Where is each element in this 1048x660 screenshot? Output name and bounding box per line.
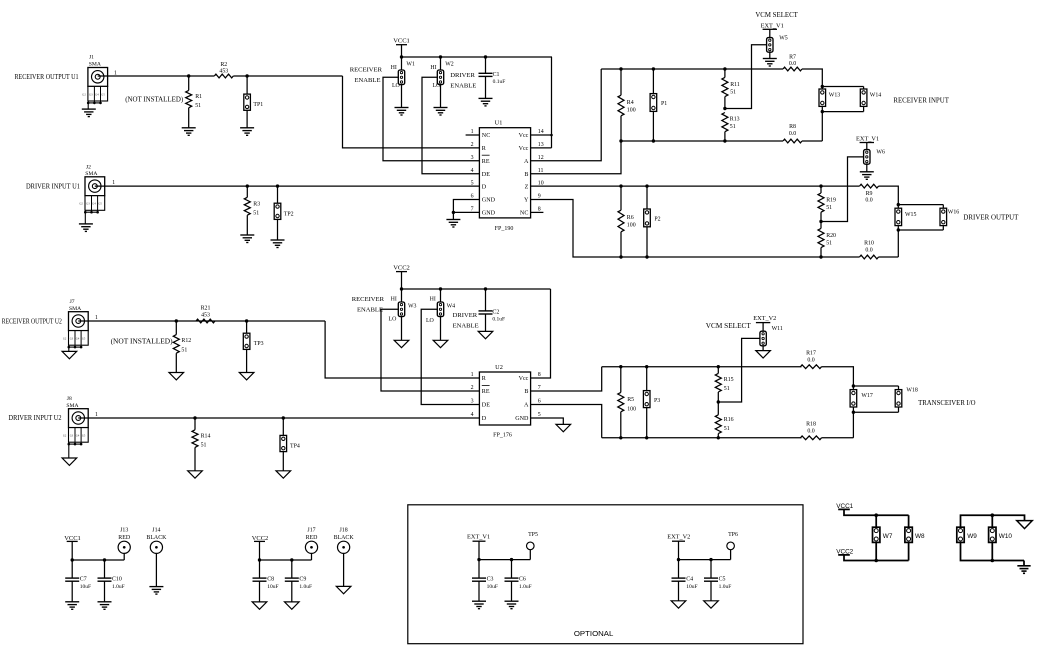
wire U1.A to receiver rail bbox=[531, 69, 602, 161]
svg-text:W4: W4 bbox=[447, 303, 456, 309]
wire W15 top to W16 top bbox=[898, 204, 943, 206]
ground under C3 bbox=[472, 601, 486, 609]
svg-text:C9: C9 bbox=[299, 577, 306, 583]
svg-text:1: 1 bbox=[471, 372, 474, 378]
svg-text:W18: W18 bbox=[906, 387, 918, 393]
svg-text:R1: R1 bbox=[195, 94, 202, 100]
wire J7 to U2.R route bbox=[78, 320, 325, 322]
svg-text:G4: G4 bbox=[95, 93, 99, 96]
ground under C6 bbox=[505, 601, 519, 609]
svg-text:EXT_V1: EXT_V1 bbox=[467, 534, 490, 541]
svg-text:G4: G4 bbox=[76, 338, 80, 341]
svg-text:W9: W9 bbox=[967, 533, 977, 540]
wire W17/W18 bottoms bbox=[852, 407, 854, 412]
svg-text:J2: J2 bbox=[86, 165, 91, 171]
wire W15/W16 bottoms bbox=[897, 226, 899, 230]
resistor R8 0.0 bbox=[783, 139, 802, 143]
resistor R1 51 (vertical) bbox=[188, 76, 190, 90]
wire driver bottom rail bbox=[621, 256, 860, 258]
resistor R14 51 bbox=[194, 418, 196, 430]
ground under W2 bbox=[434, 108, 448, 116]
svg-text:0.0: 0.0 bbox=[789, 131, 796, 137]
svg-text:GND: GND bbox=[515, 416, 529, 422]
svg-text:14: 14 bbox=[538, 129, 544, 135]
wire W1 mid to U1.RE bbox=[383, 77, 479, 161]
svg-text:1.0uF: 1.0uF bbox=[519, 584, 532, 590]
svg-text:C10: C10 bbox=[112, 577, 122, 583]
svg-text:TRANSCEIVER I/O: TRANSCEIVER I/O bbox=[918, 399, 976, 407]
svg-text:RECEIVER: RECEIVER bbox=[350, 67, 383, 74]
resistor R15 51 bbox=[717, 367, 719, 374]
ground under C10 bbox=[98, 602, 112, 610]
svg-text:G3: G3 bbox=[70, 435, 74, 438]
svg-text:EXT_V1: EXT_V1 bbox=[856, 136, 879, 143]
svg-text:EXT_V2: EXT_V2 bbox=[753, 315, 776, 322]
capacitor C4 10uF bbox=[678, 560, 680, 579]
jumper W9 bbox=[957, 527, 964, 542]
svg-text:RECEIVER OUTPUT U2: RECEIVER OUTPUT U2 bbox=[2, 317, 62, 325]
jumper W15 bbox=[897, 205, 899, 209]
capacitor C9 1.0uF bbox=[291, 560, 293, 578]
svg-text:R10: R10 bbox=[864, 241, 874, 247]
capacitor C5 1.0uF bbox=[710, 560, 712, 579]
svg-text:0.0: 0.0 bbox=[865, 247, 872, 253]
svg-text:FP_176: FP_176 bbox=[493, 433, 512, 439]
svg-text:RED: RED bbox=[118, 535, 131, 541]
jumper W3 (RECEIVER ENABLE U2) bbox=[401, 289, 403, 302]
wire W13 top to W14 top bbox=[822, 86, 863, 88]
wire W1 bottom to ground bbox=[401, 85, 403, 108]
svg-text:12: 12 bbox=[538, 155, 544, 161]
svg-text:NC: NC bbox=[520, 211, 528, 217]
svg-text:VCC1: VCC1 bbox=[393, 38, 410, 45]
svg-text:R19: R19 bbox=[826, 197, 836, 203]
jumper W4 (DRIVER ENABLE U2) bbox=[440, 289, 442, 302]
svg-text:HI: HI bbox=[430, 296, 436, 302]
U1 GND pins 6,7 to ground bbox=[453, 200, 479, 220]
wire VCC2 to W7/W8 bottom bbox=[844, 555, 909, 561]
svg-text:(NOT INSTALLED): (NOT INSTALLED) bbox=[111, 338, 174, 346]
ground under C2 bbox=[478, 331, 493, 338]
wire U1 Vcc pins 14,13 to VCC1 rail bbox=[531, 134, 552, 136]
svg-text:11: 11 bbox=[538, 168, 544, 174]
svg-text:RED: RED bbox=[306, 535, 319, 541]
svg-text:G3: G3 bbox=[70, 338, 74, 341]
svg-text:EXT_V1: EXT_V1 bbox=[761, 23, 784, 30]
svg-text:R4: R4 bbox=[627, 100, 634, 106]
U2 RE overline bbox=[482, 384, 490, 386]
svg-text:R8: R8 bbox=[789, 124, 796, 130]
U1 pin 8 NC stub bbox=[531, 211, 544, 213]
svg-text:2: 2 bbox=[471, 385, 474, 391]
svg-text:B: B bbox=[524, 172, 528, 178]
svg-text:J7: J7 bbox=[70, 299, 75, 305]
svg-text:W8: W8 bbox=[915, 533, 925, 540]
header P3 bbox=[646, 367, 648, 391]
wire W3 bottom to ground bbox=[401, 317, 403, 341]
svg-text:GND: GND bbox=[482, 211, 496, 217]
svg-text:G5: G5 bbox=[82, 338, 86, 341]
svg-text:ENABLE: ENABLE bbox=[453, 323, 479, 330]
wire J8 to U2.D bbox=[78, 417, 479, 419]
svg-text:J13: J13 bbox=[120, 528, 128, 534]
svg-text:C8: C8 bbox=[267, 577, 274, 583]
svg-text:J8: J8 bbox=[67, 396, 72, 402]
svg-text:4: 4 bbox=[471, 168, 474, 174]
svg-text:R3: R3 bbox=[253, 201, 260, 207]
ground bottom-right (earth) bbox=[1023, 561, 1025, 566]
ground under TP4 bbox=[276, 471, 291, 478]
capacitor C6 1.0uF bbox=[511, 560, 513, 579]
wire EXT_V2 filter bus bbox=[679, 559, 731, 561]
svg-text:1: 1 bbox=[112, 180, 115, 186]
svg-text:0.1uF: 0.1uF bbox=[493, 79, 506, 85]
wire VCC1 rail bbox=[402, 56, 553, 58]
svg-text:0.0: 0.0 bbox=[789, 61, 796, 67]
ground under J18 bbox=[336, 586, 351, 593]
ground under C1 bbox=[479, 98, 493, 106]
svg-text:51: 51 bbox=[181, 348, 187, 354]
ground under C5 bbox=[704, 601, 719, 608]
svg-text:R20: R20 bbox=[826, 233, 836, 239]
wire W11 bottom to ground bbox=[762, 346, 764, 351]
svg-text:ENABLE: ENABLE bbox=[354, 77, 380, 84]
ground under R12 bbox=[169, 373, 184, 380]
resistor R7 0.0 bbox=[783, 67, 802, 71]
svg-text:R11: R11 bbox=[730, 82, 740, 88]
svg-text:453: 453 bbox=[201, 312, 210, 318]
svg-text:VCM SELECT: VCM SELECT bbox=[706, 322, 752, 330]
test point TP3 bbox=[246, 321, 248, 333]
wire VCC1 decoupling bus bbox=[72, 559, 124, 561]
svg-text:RECEIVER INPUT: RECEIVER INPUT bbox=[893, 97, 949, 105]
svg-text:G2: G2 bbox=[79, 203, 83, 206]
svg-text:U2: U2 bbox=[495, 364, 503, 371]
svg-text:W5: W5 bbox=[779, 35, 788, 41]
svg-text:W2: W2 bbox=[445, 61, 454, 67]
svg-text:1.0uF: 1.0uF bbox=[299, 584, 312, 590]
ground under R3 bbox=[240, 235, 254, 243]
svg-text:W6: W6 bbox=[876, 149, 885, 155]
svg-text:100: 100 bbox=[627, 222, 636, 228]
svg-text:TP2: TP2 bbox=[284, 211, 294, 217]
header P1 bbox=[652, 69, 654, 94]
jumper W18 bbox=[895, 390, 902, 407]
wire W6 bottom to ground bbox=[866, 164, 868, 172]
ground top-right (triangle) bbox=[1017, 521, 1033, 529]
jumper W10 bbox=[989, 527, 996, 542]
svg-text:DRIVER INPUT U1: DRIVER INPUT U1 bbox=[26, 182, 80, 190]
resistor R5 100 bbox=[620, 367, 622, 393]
resistor R3 51 (to ground) bbox=[246, 186, 248, 197]
svg-text:C5: C5 bbox=[719, 577, 726, 583]
svg-text:G5: G5 bbox=[82, 435, 86, 438]
svg-text:1: 1 bbox=[95, 412, 98, 418]
svg-text:10uF: 10uF bbox=[487, 584, 498, 590]
wire W13 bottom to R8 rail bbox=[821, 112, 823, 141]
svg-text:51: 51 bbox=[730, 89, 736, 95]
svg-text:100: 100 bbox=[627, 406, 636, 412]
ground under W6 bbox=[860, 172, 874, 180]
wire W9/W10 top rail bbox=[961, 515, 1025, 527]
svg-text:TP4: TP4 bbox=[290, 444, 300, 450]
ground under W3 bbox=[394, 340, 409, 347]
svg-text:W1: W1 bbox=[406, 61, 415, 67]
svg-text:Z: Z bbox=[525, 184, 529, 190]
resistor R6 100 bbox=[620, 186, 622, 210]
ground under W5 bbox=[763, 59, 777, 67]
IC U2 (FP_176 transceiver) bbox=[479, 372, 530, 425]
svg-text:LO: LO bbox=[432, 83, 441, 89]
jumper W5 bbox=[767, 38, 773, 53]
capacitor C7 10uF bbox=[71, 560, 73, 578]
wire J2 to U1.D bbox=[95, 185, 480, 187]
wire transceiver top rail bbox=[602, 366, 802, 368]
svg-text:R15: R15 bbox=[724, 377, 734, 383]
ground under W11 bbox=[756, 351, 771, 358]
svg-text:D: D bbox=[482, 416, 487, 422]
svg-text:8: 8 bbox=[538, 207, 541, 213]
svg-text:SMA: SMA bbox=[89, 62, 101, 68]
wire U2.B to transceiver top rail bbox=[531, 367, 602, 391]
svg-text:ENABLE: ENABLE bbox=[450, 83, 476, 90]
svg-text:C4: C4 bbox=[686, 577, 693, 583]
svg-text:HI: HI bbox=[391, 296, 397, 302]
resistor R2 453 (series) bbox=[214, 74, 233, 78]
svg-text:Vcc: Vcc bbox=[519, 376, 529, 382]
svg-text:G2: G2 bbox=[82, 93, 86, 96]
resistor R12 51 bbox=[175, 321, 177, 335]
svg-text:R21: R21 bbox=[201, 305, 211, 311]
svg-text:51: 51 bbox=[826, 240, 832, 246]
wire W3 mid to U2.RE bbox=[381, 309, 479, 391]
wire R17 to W17 bbox=[822, 367, 854, 386]
wire VCC1 to W7/W8 top bbox=[844, 509, 909, 515]
svg-text:13: 13 bbox=[538, 142, 544, 148]
resistor R4 100 bbox=[620, 69, 622, 95]
jumper W8 bbox=[908, 515, 910, 527]
svg-text:SMA: SMA bbox=[69, 306, 81, 312]
svg-text:C7: C7 bbox=[80, 577, 87, 583]
svg-text:R14: R14 bbox=[201, 433, 211, 439]
ground under C9 bbox=[285, 602, 300, 609]
wire R9 to W15 bbox=[879, 186, 899, 205]
svg-text:G2: G2 bbox=[63, 338, 67, 341]
svg-text:0.1uF: 0.1uF bbox=[492, 317, 505, 323]
capacitor C10 1.0uF bbox=[104, 560, 106, 578]
svg-text:P3: P3 bbox=[654, 398, 660, 404]
svg-text:W17: W17 bbox=[861, 393, 873, 399]
svg-text:G4: G4 bbox=[92, 203, 96, 206]
U1 RE overline bbox=[482, 154, 490, 156]
svg-text:100: 100 bbox=[627, 107, 636, 113]
svg-text:LO: LO bbox=[389, 317, 398, 323]
svg-text:1.0uF: 1.0uF bbox=[112, 584, 125, 590]
svg-text:R17: R17 bbox=[806, 351, 816, 357]
svg-text:G5: G5 bbox=[98, 203, 102, 206]
header P2 bbox=[646, 186, 648, 209]
svg-text:W10: W10 bbox=[999, 533, 1013, 540]
ground under C8 bbox=[252, 602, 267, 609]
svg-text:B: B bbox=[524, 389, 528, 395]
wire W2 mid to U1.DE bbox=[422, 77, 479, 173]
svg-text:J18: J18 bbox=[340, 528, 348, 534]
svg-text:EXT_V2: EXT_V2 bbox=[667, 534, 690, 541]
svg-text:10uF: 10uF bbox=[686, 584, 697, 590]
svg-text:R7: R7 bbox=[789, 54, 796, 60]
svg-text:LO: LO bbox=[426, 318, 435, 324]
wire W4 bottom to ground bbox=[440, 317, 442, 341]
resistor R20 51 bbox=[818, 228, 824, 247]
svg-text:J14: J14 bbox=[152, 528, 160, 534]
svg-text:Vcc: Vcc bbox=[519, 146, 529, 152]
svg-text:RECEIVER: RECEIVER bbox=[352, 296, 385, 303]
wire W5 bottom to ground bbox=[769, 52, 771, 58]
svg-text:0.0: 0.0 bbox=[807, 428, 814, 434]
wire R7 to W13 bbox=[802, 69, 822, 87]
svg-text:D: D bbox=[482, 184, 487, 190]
svg-text:10uF: 10uF bbox=[80, 584, 91, 590]
wire U2 Vcc pin 8 to VCC2 rail bbox=[531, 289, 551, 378]
U1 pin 1 NC stub bbox=[466, 134, 480, 136]
wire R2 to U1.R route bbox=[233, 75, 342, 77]
svg-text:OPTIONAL: OPTIONAL bbox=[574, 629, 614, 638]
svg-text:(NOT INSTALLED): (NOT INSTALLED) bbox=[125, 96, 184, 104]
svg-text:R2: R2 bbox=[220, 62, 227, 68]
ground under TP3 bbox=[239, 373, 254, 380]
svg-text:A: A bbox=[524, 159, 529, 165]
wire U2 GND pin 5 to ground bbox=[531, 418, 564, 424]
svg-text:6: 6 bbox=[538, 399, 541, 405]
resistor R11 51 bbox=[724, 69, 726, 77]
svg-text:51: 51 bbox=[253, 210, 259, 216]
svg-text:DE: DE bbox=[482, 403, 490, 409]
svg-text:BLACK: BLACK bbox=[146, 535, 167, 541]
svg-text:LO: LO bbox=[392, 83, 401, 89]
wire transceiver bottom rail bbox=[602, 437, 802, 439]
capacitor C3 10uF bbox=[478, 560, 480, 579]
svg-text:1.0uF: 1.0uF bbox=[719, 584, 732, 590]
ground under W4 bbox=[433, 340, 448, 347]
svg-text:A: A bbox=[524, 403, 529, 409]
ground under W1 bbox=[395, 108, 409, 116]
jumper W1 (RECEIVER ENABLE) bbox=[401, 57, 403, 70]
wire W4 mid to U2.DE bbox=[421, 309, 479, 404]
svg-text:DRIVER: DRIVER bbox=[453, 312, 478, 319]
svg-text:3: 3 bbox=[471, 399, 474, 405]
svg-text:DRIVER INPUT U2: DRIVER INPUT U2 bbox=[9, 414, 62, 422]
IC U1 (FP_190 line driver/receiver) bbox=[479, 128, 530, 218]
jumper W6 bbox=[864, 150, 870, 165]
node R15/R16 midpoint to W11 bbox=[717, 400, 720, 403]
svg-text:51: 51 bbox=[195, 103, 201, 109]
svg-text:HI: HI bbox=[430, 65, 436, 71]
svg-text:7: 7 bbox=[471, 207, 474, 213]
svg-text:W7: W7 bbox=[883, 533, 893, 540]
jumper W14 bbox=[860, 89, 867, 106]
node R19/R20 midpoint bbox=[819, 220, 822, 223]
resistor R16 51 bbox=[717, 402, 719, 415]
svg-text:3: 3 bbox=[471, 155, 474, 161]
svg-text:J1: J1 bbox=[89, 54, 94, 60]
svg-text:RE: RE bbox=[482, 389, 490, 395]
svg-text:DE: DE bbox=[482, 172, 490, 178]
svg-text:GND: GND bbox=[482, 198, 496, 204]
svg-text:U1: U1 bbox=[495, 120, 503, 127]
wire W17 top to W18 top bbox=[853, 385, 898, 387]
wire W15 bottom to R10 rail bbox=[897, 230, 899, 257]
jumper W11 bbox=[760, 331, 766, 346]
node R11/R13 midpoint to W5 bbox=[723, 107, 726, 110]
jumper W2 (DRIVER ENABLE) bbox=[440, 57, 442, 70]
ground under TP1 bbox=[240, 128, 254, 136]
svg-text:G2: G2 bbox=[63, 435, 67, 438]
svg-text:R13: R13 bbox=[730, 116, 740, 122]
svg-text:P2: P2 bbox=[654, 217, 660, 223]
svg-text:C2: C2 bbox=[492, 309, 499, 315]
svg-text:C6: C6 bbox=[519, 577, 526, 583]
svg-text:R6: R6 bbox=[627, 215, 634, 221]
jumper W16 bbox=[940, 208, 947, 225]
svg-text:0.0: 0.0 bbox=[865, 198, 872, 204]
svg-text:Vcc: Vcc bbox=[519, 133, 529, 139]
svg-text:W13: W13 bbox=[829, 93, 841, 99]
svg-text:RE: RE bbox=[482, 159, 490, 165]
svg-text:SMA: SMA bbox=[66, 403, 78, 409]
ground under TP2 bbox=[271, 240, 285, 248]
capacitor C8 10uF bbox=[259, 560, 261, 578]
resistor R17 0.0 bbox=[801, 365, 822, 369]
svg-text:W16: W16 bbox=[948, 209, 960, 215]
svg-text:5: 5 bbox=[471, 180, 474, 186]
svg-text:C1: C1 bbox=[493, 72, 500, 78]
capacitor C1 0.1uF bbox=[485, 57, 487, 73]
resistor R13 51 bbox=[722, 113, 728, 132]
ground under U2 pin 5 bbox=[556, 424, 571, 431]
svg-text:51: 51 bbox=[826, 205, 832, 211]
test point TP1 bbox=[246, 76, 248, 94]
wire W13/W14 bottoms bbox=[821, 106, 823, 111]
svg-text:R16: R16 bbox=[724, 417, 734, 423]
wire W2 bottom to ground bbox=[440, 85, 442, 108]
svg-text:G3: G3 bbox=[89, 93, 93, 96]
test point TP2 bbox=[277, 186, 279, 203]
svg-text:R9: R9 bbox=[866, 191, 873, 197]
svg-text:W14: W14 bbox=[870, 93, 882, 99]
ground under U1 bbox=[446, 220, 460, 228]
svg-text:7: 7 bbox=[538, 385, 541, 391]
jumper W17 bbox=[852, 386, 854, 390]
wire W17 bottom to R18 rail bbox=[852, 412, 854, 438]
wire VCC2 rail bbox=[402, 288, 551, 290]
ground under R1 bbox=[182, 128, 196, 136]
wire VCC2 decoupling bus bbox=[260, 559, 312, 561]
ground under R14 bbox=[188, 471, 203, 478]
resistor R18 0.0 bbox=[801, 436, 822, 440]
wire EXT_V1 filter bus bbox=[479, 559, 530, 561]
svg-text:VCC2: VCC2 bbox=[393, 265, 410, 272]
svg-text:G5: G5 bbox=[101, 93, 105, 96]
svg-text:NC: NC bbox=[482, 133, 490, 139]
jumper W7 bbox=[875, 515, 877, 527]
svg-text:P1: P1 bbox=[661, 101, 667, 107]
svg-text:R12: R12 bbox=[181, 338, 191, 344]
svg-text:TP6: TP6 bbox=[728, 532, 738, 538]
svg-text:4: 4 bbox=[471, 412, 474, 418]
svg-text:DRIVER OUTPUT: DRIVER OUTPUT bbox=[963, 214, 1019, 222]
svg-text:W15: W15 bbox=[905, 212, 917, 218]
ground under C4 bbox=[671, 601, 686, 608]
